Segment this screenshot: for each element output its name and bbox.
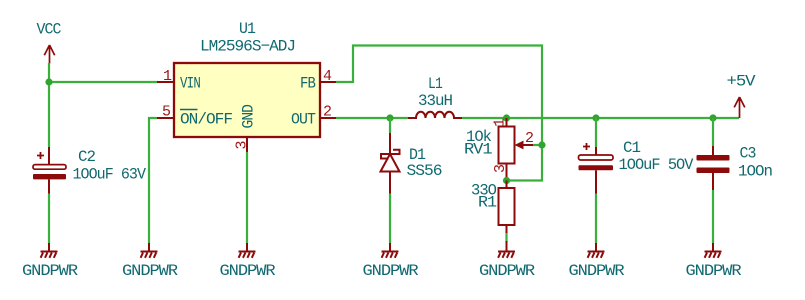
- resistor R1: [499, 181, 515, 236]
- svg-text:ON/OFF: ON/OFF: [180, 111, 232, 129]
- wire D1 to ground: [389, 194, 391, 245]
- svg-text:GNDPWR: GNDPWR: [22, 262, 78, 280]
- svg-text:GNDPWR: GNDPWR: [479, 262, 535, 280]
- wire C1 top: [595, 118, 597, 147]
- ground GNDPWR 1: [41, 243, 58, 258]
- svg-text:RV1: RV1: [464, 141, 492, 159]
- ground GNDPWR 3: [239, 243, 256, 258]
- svg-text:LM2596S−ADJ: LM2596S−ADJ: [200, 38, 295, 56]
- svg-text:3: 3: [492, 164, 509, 173]
- ground GNDPWR 5: [498, 241, 515, 258]
- svg-text:VIN: VIN: [180, 75, 200, 93]
- wire GND pin to ground: [246, 152, 248, 244]
- capacitor C1: [579, 143, 614, 194]
- svg-text:C1: C1: [623, 139, 640, 157]
- wire C3 top: [712, 118, 714, 146]
- wire VCC vertical top: [48, 63, 50, 147]
- pin 5 ON/OFF stub: [157, 117, 174, 119]
- svg-text:1OOn: 1OOn: [738, 163, 772, 181]
- ground GNDPWR 4: [382, 243, 399, 258]
- svg-text:VCC: VCC: [37, 21, 61, 39]
- junction OUT at C3: [709, 114, 716, 121]
- junction OUT at C1: [592, 114, 599, 121]
- wire C2 to ground: [48, 194, 50, 245]
- wiper arrow RV1: [515, 141, 524, 150]
- pin 4 FB stub: [320, 81, 336, 83]
- svg-text:FB: FB: [300, 75, 315, 93]
- svg-text:GNDPWR: GNDPWR: [569, 262, 625, 280]
- pin 2 OUT stub: [320, 117, 336, 119]
- capacitor C3: [697, 146, 730, 190]
- IC U1 body: [174, 63, 320, 137]
- ground GNDPWR 6: [588, 243, 605, 258]
- svg-text:1OOuF 5OV: 1OOuF 5OV: [619, 156, 694, 174]
- wire C1 to ground: [595, 194, 597, 245]
- inductor L1: [408, 112, 462, 118]
- svg-text:U1: U1: [239, 20, 255, 38]
- svg-text:1: 1: [492, 118, 509, 127]
- svg-text:+5V: +5V: [727, 73, 757, 91]
- junction divider tap: [503, 177, 510, 184]
- wire wiper to FB: [533, 144, 542, 146]
- svg-text:GNDPWR: GNDPWR: [220, 262, 276, 280]
- junction OUT at D1: [386, 114, 393, 121]
- wire FB down to divider tap: [507, 145, 543, 181]
- svg-text:1: 1: [163, 68, 172, 85]
- junction FB wiper: [538, 141, 545, 148]
- svg-text:C2: C2: [78, 148, 95, 166]
- svg-text:2: 2: [525, 130, 533, 147]
- svg-text:L1: L1: [428, 75, 442, 93]
- svg-text:2: 2: [323, 104, 331, 121]
- svg-text:4: 4: [323, 68, 332, 85]
- svg-text:GNDPWR: GNDPWR: [686, 262, 742, 280]
- power flag VCC: [44, 45, 54, 64]
- svg-text:33uH: 33uH: [418, 92, 452, 110]
- capacitor C2: [33, 147, 66, 194]
- svg-text:GNDPWR: GNDPWR: [122, 262, 178, 280]
- svg-text:GND: GND: [240, 105, 258, 129]
- power flag +5V: [734, 97, 745, 118]
- wire R1 to ground: [505, 233, 507, 242]
- svg-text:SS56: SS56: [407, 162, 442, 180]
- svg-text:C3: C3: [740, 145, 756, 163]
- wire FB loop: [336, 46, 542, 146]
- svg-text:1OOuF 63V: 1OOuF 63V: [73, 166, 147, 184]
- wire OUT net: [336, 117, 408, 119]
- wire C3 to ground: [712, 190, 714, 244]
- junction VCC node: [45, 78, 52, 85]
- svg-text:OUT: OUT: [291, 111, 315, 129]
- potentiometer RV1: [499, 118, 534, 181]
- ground GNDPWR 7: [705, 243, 722, 258]
- wire VCC to VIN: [49, 81, 158, 83]
- pin 3 GND stub: [246, 137, 248, 152]
- junction OUT at RV1: [503, 114, 510, 121]
- pin 1 VIN stub: [157, 81, 174, 83]
- svg-text:GNDPWR: GNDPWR: [363, 262, 419, 280]
- svg-text:3: 3: [234, 141, 251, 150]
- ground GNDPWR 2: [141, 243, 158, 258]
- wire D1 top: [389, 118, 391, 133]
- svg-text:R1: R1: [478, 194, 496, 212]
- svg-text:5: 5: [162, 104, 171, 121]
- wire ON/OFF to ground: [149, 118, 157, 244]
- diode D1 (Schottky): [381, 133, 400, 194]
